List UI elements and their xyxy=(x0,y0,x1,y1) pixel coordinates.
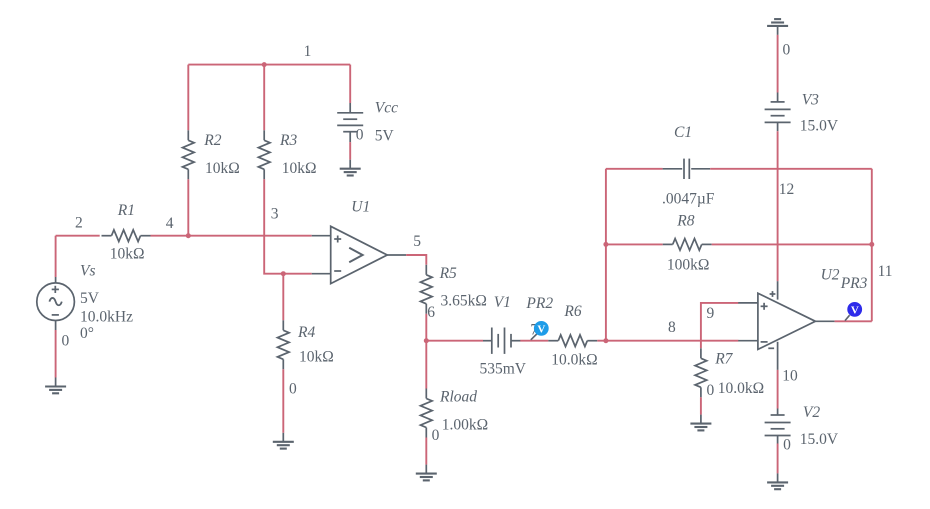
ground under V2 xyxy=(767,473,788,489)
resistor R3 xyxy=(258,130,270,179)
svg-text:9: 9 xyxy=(707,305,715,322)
wire net 1 to R2 xyxy=(187,65,189,131)
svg-text:535mV: 535mV xyxy=(480,360,527,377)
wire R7 to ground xyxy=(700,397,702,414)
label V3 value xyxy=(800,117,839,134)
svg-text:3.65kΩ: 3.65kΩ xyxy=(441,292,487,309)
svg-text:V: V xyxy=(851,305,859,317)
wire Vcc to ground xyxy=(349,142,351,160)
label R3 value xyxy=(282,160,317,177)
svg-text:PR2: PR2 xyxy=(525,295,553,312)
label R7 value xyxy=(718,380,764,397)
node 6 label xyxy=(427,304,435,321)
resistor Rload xyxy=(421,389,433,438)
ground under Vs xyxy=(45,378,66,394)
label R5 value xyxy=(441,292,487,309)
label R7 xyxy=(714,351,733,368)
svg-text:10: 10 xyxy=(782,367,798,384)
resistor R7 xyxy=(695,348,707,397)
node 0 label at Vcc xyxy=(356,127,364,144)
resistor R1 xyxy=(102,230,151,242)
wire R8 right xyxy=(712,243,872,245)
battery V3 xyxy=(765,93,791,132)
svg-text:V2: V2 xyxy=(803,404,820,421)
label R4 xyxy=(297,324,315,341)
node 12 label xyxy=(779,181,795,198)
wire node3 branch to R4 xyxy=(282,274,284,321)
label Vs 5V xyxy=(80,290,100,307)
label Vcc value 5V xyxy=(375,127,395,144)
wire net 1 to R3 xyxy=(263,65,265,131)
svg-text:0: 0 xyxy=(783,437,791,454)
probe PR3 xyxy=(847,302,862,317)
svg-text:Vs: Vs xyxy=(80,262,96,279)
label R6 xyxy=(563,303,581,320)
label C1 value xyxy=(662,191,715,208)
svg-text:15.0V: 15.0V xyxy=(800,117,839,134)
svg-text:U2: U2 xyxy=(821,266,840,283)
svg-text:R6: R6 xyxy=(563,303,581,320)
svg-text:4: 4 xyxy=(166,215,174,232)
ground under R4 xyxy=(273,433,294,449)
wire feedback right vertical xyxy=(871,169,873,321)
wire net 4 xyxy=(151,235,312,237)
wire net 2 vertical xyxy=(55,236,57,277)
node 3 label xyxy=(271,206,279,223)
node 0 label at V2 xyxy=(783,437,791,454)
label Vs xyxy=(80,262,96,279)
label Vs frequency xyxy=(80,309,133,326)
battery V2 xyxy=(765,409,791,444)
resistor R5 xyxy=(421,265,433,314)
label PR2 xyxy=(525,295,553,312)
label Vs phase xyxy=(80,325,94,342)
svg-text:0: 0 xyxy=(783,42,791,59)
svg-text:10kΩ: 10kΩ xyxy=(110,246,145,263)
label R8 xyxy=(676,212,694,229)
wire R5 bottom xyxy=(425,314,427,341)
svg-text:0: 0 xyxy=(356,127,364,144)
svg-text:5V: 5V xyxy=(375,127,395,144)
node 0 label at R4 xyxy=(289,381,297,398)
svg-text:10kΩ: 10kΩ xyxy=(282,160,317,177)
wire node6 to Rload xyxy=(425,341,427,389)
svg-text:V1: V1 xyxy=(494,294,511,311)
probe PR3 pointer xyxy=(845,315,850,320)
label R6 value xyxy=(551,352,597,369)
svg-text:R5: R5 xyxy=(439,265,457,282)
resistor R2 xyxy=(183,130,195,179)
op-amp U1 xyxy=(312,226,407,283)
svg-text:5V: 5V xyxy=(80,290,100,307)
wire net 1 to Vcc xyxy=(349,65,351,103)
svg-text:R2: R2 xyxy=(203,132,221,149)
label R5 xyxy=(439,265,457,282)
ground above V3 xyxy=(767,19,788,35)
wire C1 left xyxy=(606,168,663,170)
battery Vcc xyxy=(337,103,363,142)
junction at R8 left xyxy=(603,242,608,247)
ground under R7 xyxy=(690,415,711,431)
node 11 label xyxy=(878,263,893,280)
svg-text:10.0kΩ: 10.0kΩ xyxy=(551,352,597,369)
ground under Vcc xyxy=(340,160,361,176)
label U1 xyxy=(351,199,370,216)
svg-text:R7: R7 xyxy=(714,351,733,368)
svg-text:2: 2 xyxy=(75,215,83,232)
node 0 label at V3 xyxy=(783,42,791,59)
svg-text:5: 5 xyxy=(413,233,421,250)
resistor R6 xyxy=(548,335,597,347)
label R4 value xyxy=(299,348,334,365)
svg-text:10kΩ: 10kΩ xyxy=(299,348,334,365)
svg-text:3: 3 xyxy=(271,206,279,223)
junction node at R4 top xyxy=(281,271,286,276)
wire Rload to ground xyxy=(425,438,427,465)
wire net 1 horizontal xyxy=(188,64,350,66)
wire R3 bottom to U1 minus input xyxy=(264,179,312,273)
label R1 xyxy=(117,202,135,219)
wire Vs to ground xyxy=(55,330,57,378)
node 0 label at Vs xyxy=(62,332,70,349)
svg-text:Rload: Rload xyxy=(439,388,477,405)
junction node 6 xyxy=(424,338,429,343)
label C1 xyxy=(674,124,692,141)
node 5 label xyxy=(413,233,421,250)
label V3 xyxy=(802,91,819,108)
junction at R8 right xyxy=(869,242,874,247)
svg-text:6: 6 xyxy=(427,304,435,321)
label R2 xyxy=(203,132,221,149)
resistor R8 xyxy=(663,239,712,251)
wire node6 to V1 xyxy=(426,340,483,342)
svg-text:V3: V3 xyxy=(802,91,819,108)
svg-text:15.0V: 15.0V xyxy=(800,431,839,448)
svg-text:Vcc: Vcc xyxy=(375,100,398,117)
label Rload xyxy=(439,388,477,405)
wire net 5 xyxy=(406,255,426,265)
node 10 label xyxy=(782,367,798,384)
source Vs xyxy=(37,277,75,330)
label Rload value xyxy=(442,417,488,434)
svg-text:PR3: PR3 xyxy=(840,275,868,292)
svg-text:R3: R3 xyxy=(279,132,297,149)
wire ground to V3 xyxy=(777,35,779,93)
svg-text:10.0kΩ: 10.0kΩ xyxy=(718,380,764,397)
label Vcc xyxy=(375,100,398,117)
battery V1 xyxy=(483,328,521,354)
wire C1 right xyxy=(710,168,872,170)
junction node 1 xyxy=(262,62,267,67)
wire net 10 xyxy=(777,370,779,409)
label V1 value xyxy=(480,360,527,377)
resistor R4 xyxy=(278,320,290,369)
junction node 8 at feedback xyxy=(603,338,608,343)
svg-text:0: 0 xyxy=(707,382,715,399)
svg-text:11: 11 xyxy=(878,263,893,280)
svg-text:R4: R4 xyxy=(297,324,315,341)
label R3 xyxy=(279,132,297,149)
svg-text:10.0kHz: 10.0kHz xyxy=(80,309,133,326)
capacitor C1 xyxy=(663,159,711,179)
wire net 11 output xyxy=(835,320,872,322)
wire R4 to ground xyxy=(282,369,284,433)
node 0 label at R7 xyxy=(707,382,715,399)
label R2 value xyxy=(205,160,240,177)
label V1 xyxy=(494,294,511,311)
svg-text:C1: C1 xyxy=(674,124,692,141)
svg-text:U1: U1 xyxy=(351,199,370,216)
op-amp U2 xyxy=(738,281,834,370)
wire V2 to ground xyxy=(777,444,779,474)
node 9 label xyxy=(707,305,715,322)
probe PR2 xyxy=(534,321,549,336)
svg-text:0: 0 xyxy=(62,332,70,349)
label V2 value xyxy=(800,431,839,448)
wire feedback left vertical xyxy=(605,169,607,341)
ground under Rload xyxy=(416,465,437,481)
label U2 xyxy=(821,266,840,283)
wire net 2 horizontal xyxy=(56,235,100,237)
svg-text:.0047µF: .0047µF xyxy=(662,191,715,208)
wire net 7 xyxy=(520,340,548,342)
junction node 4 xyxy=(186,233,191,238)
svg-text:1.00kΩ: 1.00kΩ xyxy=(442,417,488,434)
svg-text:100kΩ: 100kΩ xyxy=(667,257,710,274)
svg-text:0°: 0° xyxy=(80,325,94,342)
node 8 label xyxy=(668,319,676,336)
svg-text:10kΩ: 10kΩ xyxy=(205,160,240,177)
svg-text:0: 0 xyxy=(432,427,440,444)
node 0 label at Rload xyxy=(432,427,440,444)
node 4 label xyxy=(166,215,174,232)
svg-text:R1: R1 xyxy=(117,202,135,219)
probe PR2 pointer xyxy=(531,334,537,340)
wire net 9 xyxy=(701,303,739,348)
wire R8 left xyxy=(606,243,663,245)
label R8 value xyxy=(667,257,710,274)
label V2 xyxy=(803,404,820,421)
wire net 8 xyxy=(597,340,738,342)
wire R2 bottom to node 4 xyxy=(187,179,189,235)
wire net 12 xyxy=(777,131,779,281)
svg-text:12: 12 xyxy=(779,181,795,198)
label R1 value xyxy=(110,246,145,263)
label PR3 xyxy=(840,275,868,292)
svg-text:R8: R8 xyxy=(676,212,694,229)
svg-text:8: 8 xyxy=(668,319,676,336)
node 7 label xyxy=(530,321,538,338)
node 2 label xyxy=(75,215,83,232)
svg-text:V: V xyxy=(537,324,545,336)
node 1 label xyxy=(304,43,312,60)
svg-text:0: 0 xyxy=(289,381,297,398)
svg-text:1: 1 xyxy=(304,43,312,60)
